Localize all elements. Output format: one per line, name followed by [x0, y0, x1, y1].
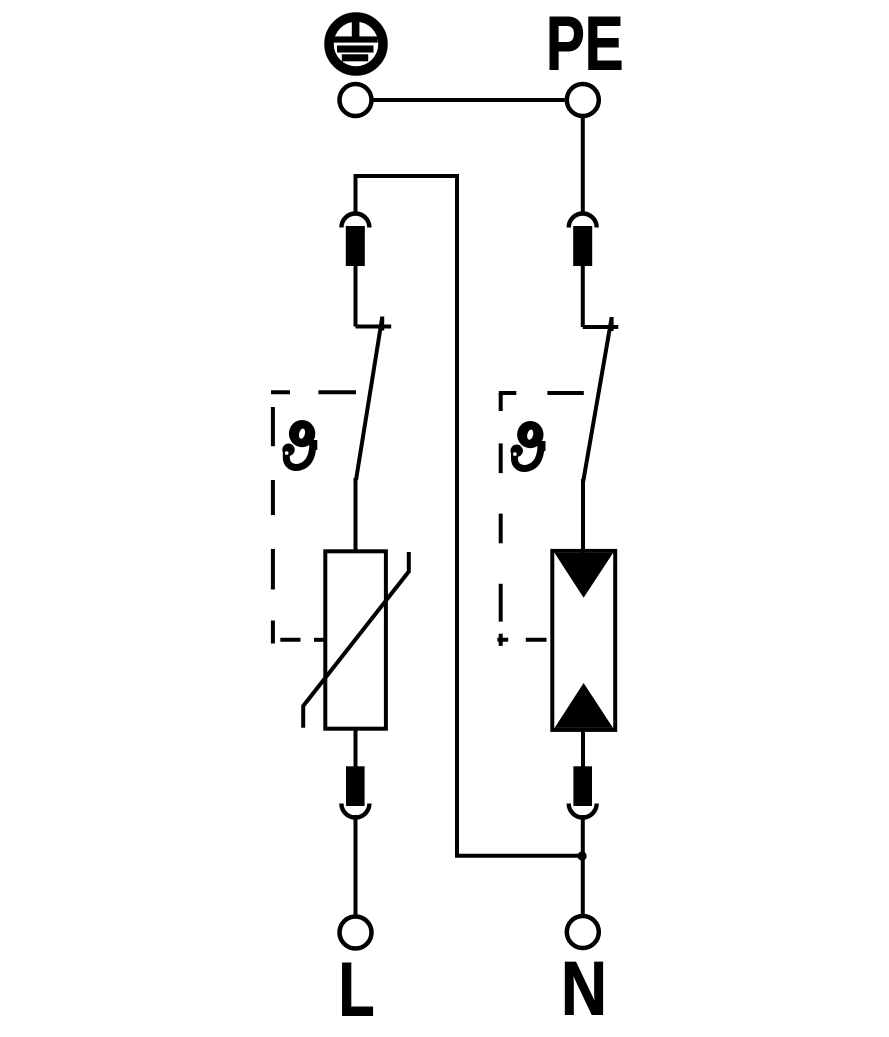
wire long crossing wire from left branch top to N junction — [356, 176, 583, 856]
junction node — [578, 851, 587, 860]
terminal L — [340, 917, 372, 949]
switch right blade — [583, 318, 611, 482]
wire PE right terminal down to disconnector — [581, 116, 585, 214]
svg-text:PE: PE — [546, 1, 624, 86]
wire top horizontal between PE terminals — [374, 98, 565, 102]
switch left fixed contact — [356, 317, 392, 331]
varistor — [303, 551, 409, 728]
dashed thermal link box left — [271, 392, 356, 643]
wire disconnector to L terminal — [354, 815, 358, 915]
wire disconnector through junction to N terminal — [581, 815, 585, 915]
thermal disconnector right top — [569, 214, 597, 267]
wire gas discharge tube to bottom disconnector — [581, 729, 585, 767]
thermal disconnector left bottom — [341, 766, 369, 817]
theta label left — [282, 420, 317, 467]
protective earth symbol — [329, 17, 383, 71]
wire left disconnector to switch — [354, 264, 358, 327]
thermal disconnector left top — [341, 214, 369, 267]
terminal N — [567, 916, 599, 948]
wire switch to varistor — [354, 478, 358, 553]
wire switch to gas discharge tube — [581, 479, 585, 560]
switch right fixed contact — [583, 317, 619, 331]
svg-text:N: N — [561, 947, 607, 1032]
terminal PE left — [340, 84, 372, 116]
theta label right — [511, 421, 546, 468]
switch left blade — [356, 318, 382, 481]
thermal disconnector right bottom — [569, 766, 597, 817]
dashed thermal link box right — [497, 393, 583, 646]
svg-text:L: L — [339, 948, 375, 1033]
terminal PE right — [567, 84, 599, 116]
wire varistor to bottom disconnector — [354, 728, 358, 767]
wire right disconnector to switch — [581, 264, 585, 327]
gas discharge tube — [552, 551, 615, 730]
